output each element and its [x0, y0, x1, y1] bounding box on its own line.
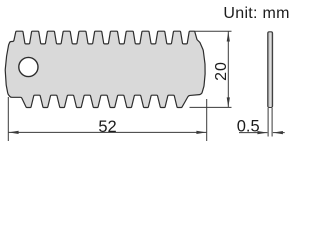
extension line 0.5 right: [271, 108, 273, 137]
extension line 20 top: [195, 30, 232, 32]
arrow 20 bottom: [227, 97, 230, 107]
dimension line 52: [9, 131, 207, 133]
comb plate front view: [5, 31, 205, 107]
hole: [19, 57, 38, 76]
svg-text:0.5: 0.5: [237, 118, 260, 136]
side view thin bar: [268, 32, 273, 108]
extension line 52 left: [7, 97, 9, 141]
extension line 52 right: [206, 99, 208, 141]
arrow 52 left: [9, 131, 19, 134]
extension line 20 bottom: [190, 106, 232, 108]
dimension line 20: [227, 32, 229, 108]
arrow 52 right: [196, 131, 206, 134]
leader line 0.5 left: [239, 132, 267, 134]
svg-text:Unit: mm: Unit: mm: [223, 5, 289, 22]
svg-text:20: 20: [213, 61, 230, 81]
extension line 0.5 left: [267, 108, 269, 137]
arrow 20 top: [227, 32, 230, 42]
arrow 0.5 left: [257, 131, 267, 134]
leader line 0.5 right: [273, 132, 285, 134]
svg-text:52: 52: [98, 118, 116, 136]
arrow 0.5 right: [273, 131, 283, 134]
